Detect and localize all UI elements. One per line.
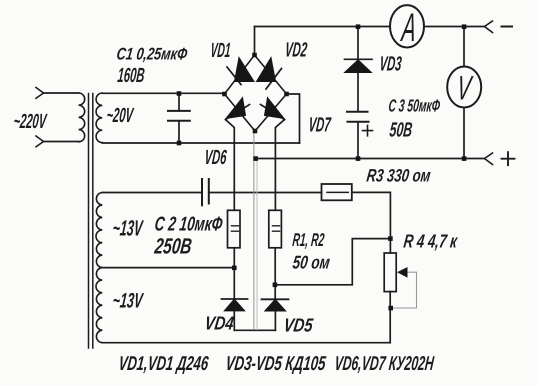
thyristor VD7 triangle [265,98,285,119]
svg-text:C 3 50мкФ: C 3 50мкФ [387,97,441,116]
transformer T1 secondary 13V winding [96,193,102,343]
thyristor VD6 cathode bar [226,105,250,120]
capacitor C1 top plate [168,110,190,112]
wire R2 node to R4 top node [275,239,391,285]
wire VD3 branch upper [357,27,359,60]
wire bridge bottom node to VD4-VD5 node (gray line 1) [253,132,255,331]
junction bridge top node [252,53,257,58]
wire bottom return [102,342,390,344]
terminal minus chevron [485,21,493,33]
diode VD1 triangle [235,58,255,82]
svg-text:~13V: ~13V [111,288,144,312]
plus sign label [502,152,515,165]
wire bridge bottom node to VD4-VD5 node (gray line 2) [256,160,258,330]
junction VD3 branch top [356,24,361,29]
svg-text:50 ом: 50 ом [291,253,331,273]
resistor R2 inner marks [273,226,280,231]
resistor R3 right lead [352,192,391,253]
potentiometer R4 bottom lead [389,292,391,343]
svg-text:VD1,VD1 Д246: VD1,VD1 Д246 [117,352,209,374]
voltmeter U2 branch upper wire [463,27,465,67]
svg-text:VD6: VD6 [204,145,229,168]
thyristor VD6 triangle [226,98,246,119]
resistor R3 body [322,184,352,200]
junction C1 bottom [177,141,182,146]
junction voltmeter branch top [462,24,467,29]
wire 20V winding bottom AC line [102,142,299,144]
wire primary top lead [44,92,79,94]
svg-text:250В: 250В [152,235,193,259]
diode VD5 cathode bar [262,298,289,300]
svg-text:~20V: ~20V [106,103,136,127]
svg-text:VD3-VD5 КД105: VD3-VD5 КД105 [224,352,327,374]
resistor R1 bottom lead [233,248,235,299]
resistor R3 inner mark [327,191,348,193]
wire C3 to plus rail [357,122,359,159]
resistor R2 body [269,210,282,248]
bridge arm top-left [225,55,255,94]
diode VD3 triangle [345,60,371,72]
thyristor VD7 gate wire [275,120,284,211]
junction bridge left node [222,92,227,97]
thyristor VD6 gate wire [226,120,235,211]
junction C3 bottom [356,156,361,161]
potentiometer R4 wiper arrow [397,267,408,278]
wire VD3 to C3 [357,73,359,112]
diode VD5 bottom lead [274,311,276,330]
transformer T1 secondary 20V winding [96,93,102,143]
wire AC line riser to bridge right node [287,94,300,143]
potentiometer R4 wiper return wire [391,272,416,308]
wire primary bottom lead [44,141,79,143]
capacitor C2 right plate [208,179,210,204]
bridge arm top-right [255,55,287,94]
junction plus rail left end [253,156,258,161]
svg-text:VD3: VD3 [379,52,404,75]
diode VD2 cathode bar [266,69,282,90]
terminal input top chevron [36,88,44,99]
bridge arm bottom-left [225,94,256,131]
svg-text:VD7: VD7 [308,113,333,136]
svg-text:VD4: VD4 [203,312,235,334]
diode VD1 cathode bar [227,67,241,85]
thyristor VD7 cathode bar [261,105,285,120]
capacitor C1 bottom plate [168,120,190,122]
svg-text:VD5: VD5 [282,314,314,336]
svg-text:160В: 160В [117,63,146,86]
svg-text:R1, R2: R1, R2 [292,230,326,251]
svg-text:A: A [399,5,418,50]
wire plus rail [256,158,485,160]
svg-text:R 4 4,7 к: R 4 4,7 к [402,231,459,252]
svg-text:~13V: ~13V [112,216,145,240]
ammeter U1 circle [390,5,424,47]
transformer T1 core line left [88,94,90,349]
capacitor C1 top lead [178,93,180,111]
capacitor C2 left plate [201,179,203,205]
minus sign label [502,26,513,28]
wire bridge top lead [254,27,256,56]
diode VD4 cathode bar [222,298,248,300]
wire 13V winding top to C2 [102,192,202,194]
diode VD5 triangle [265,300,286,311]
voltmeter U2 branch lower wire [463,108,465,159]
transformer T1 core line right [92,94,94,349]
capacitor C1 bottom lead [178,121,180,143]
potentiometer R4 body [384,253,396,292]
diode VD3 cathode bar [345,58,373,60]
junction R4 bottom wiper node [388,306,393,311]
bridge arm bottom-right [255,94,287,131]
diode VD4 bottom lead [233,311,235,331]
svg-text:V: V [455,69,474,106]
voltmeter U2 circle [447,67,481,108]
junction C1 top [177,91,182,96]
svg-text:VD1: VD1 [210,39,232,62]
terminal plus chevron [485,153,493,165]
transformer T1 primary winding [79,93,85,142]
svg-text:C1 0,25мкФ: C1 0,25мкФ [115,45,188,64]
wire 20V winding top to bridge left node [102,92,224,94]
junction R2 VD5 node [273,283,278,288]
resistor R1 body [228,210,241,248]
svg-text:50В: 50В [388,118,413,141]
svg-text:~220V: ~220V [13,109,49,133]
junction voltmeter branch bottom [462,156,467,161]
wire top rail right segment (ammeter to minus terminal) [425,26,485,28]
svg-text:C 2 10мкФ: C 2 10мкФ [153,212,224,235]
capacitor C3 bottom plate [348,121,369,123]
wire winding tap to R1-VD4 node [102,267,234,269]
diode VD5 top lead [274,285,276,300]
diode VD2 triangle [257,58,276,82]
resistor R2 bottom lead [274,248,276,285]
capacitor C3 top plate [347,111,368,113]
wire top rail left segment (bridge top to ammeter) [255,26,390,28]
terminal input bottom chevron [36,136,44,147]
svg-text:VD2: VD2 [284,38,309,61]
wire C2 to R3 [209,192,322,194]
capacitor C3 plus polarity mark [363,125,373,135]
diode VD4 triangle [225,299,245,311]
svg-text:VD6,VD7 КУ202Н: VD6,VD7 КУ202Н [333,352,435,375]
junction R4 top node [388,236,393,241]
junction tap R1 VD4 node [232,266,237,271]
svg-text:R3 330 ом: R3 330 ом [365,167,431,186]
junction bridge right node [284,92,289,97]
wire VD4-VD5 common bottom [234,329,275,331]
junction bridge bottom node [253,129,258,134]
resistor R1 inner marks [232,226,239,231]
